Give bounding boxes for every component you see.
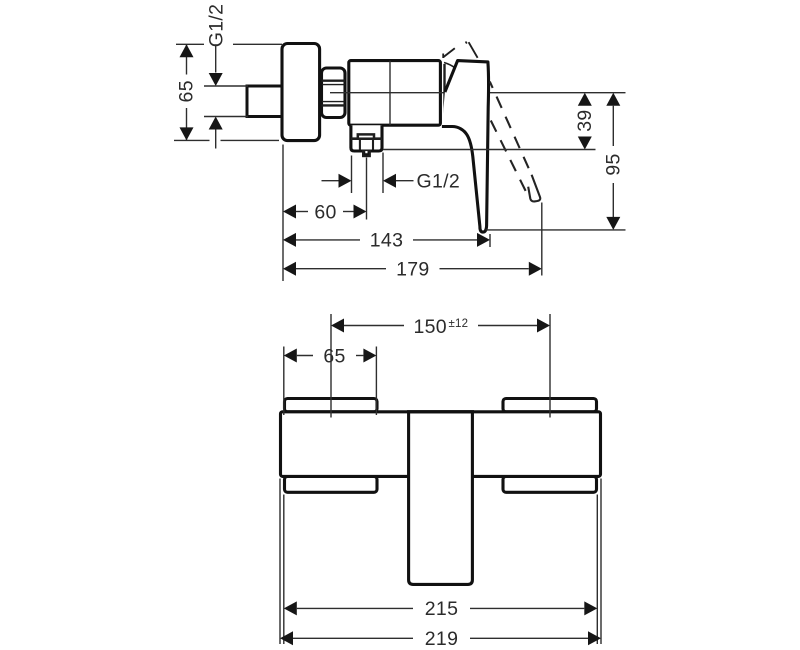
svg-text:143: 143 (370, 230, 403, 252)
svg-text:39: 39 (574, 109, 596, 131)
svg-text:215: 215 (425, 598, 458, 620)
svg-text:±12: ±12 (449, 318, 469, 330)
svg-text:219: 219 (425, 628, 458, 650)
svg-text:95: 95 (602, 153, 624, 175)
svg-text:65: 65 (176, 80, 198, 102)
svg-text:150: 150 (414, 316, 447, 338)
svg-text:G1/2: G1/2 (417, 171, 460, 193)
svg-text:179: 179 (396, 259, 429, 281)
svg-text:65: 65 (323, 345, 345, 367)
svg-text:60: 60 (314, 201, 336, 223)
svg-text:G1/2: G1/2 (206, 4, 228, 47)
